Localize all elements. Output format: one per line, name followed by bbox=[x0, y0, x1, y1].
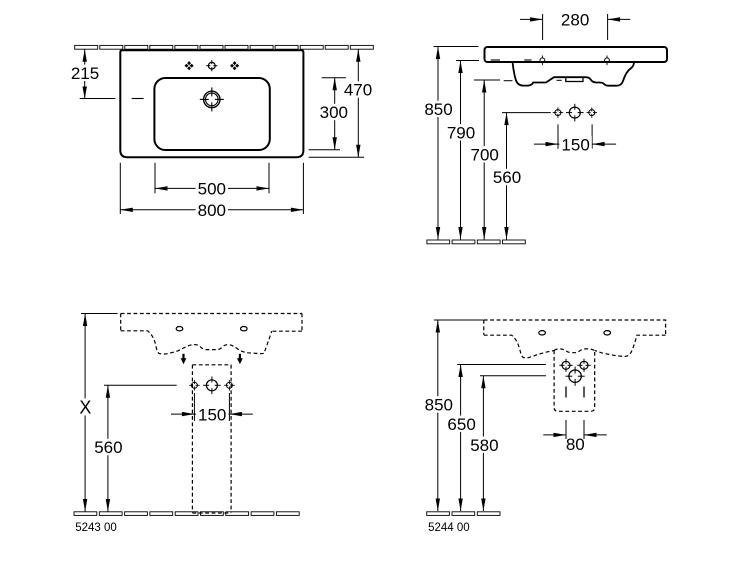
svg-text:5244 00: 5244 00 bbox=[428, 522, 470, 534]
svg-text:150: 150 bbox=[561, 135, 589, 154]
svg-text:850: 850 bbox=[424, 100, 452, 119]
svg-text:470: 470 bbox=[344, 81, 372, 100]
svg-text:850: 850 bbox=[425, 396, 453, 415]
svg-text:215: 215 bbox=[71, 64, 99, 83]
svg-text:500: 500 bbox=[198, 180, 226, 199]
svg-text:790: 790 bbox=[447, 124, 475, 143]
svg-text:150: 150 bbox=[198, 405, 226, 424]
svg-text:800: 800 bbox=[198, 201, 226, 220]
svg-text:80: 80 bbox=[566, 435, 585, 454]
svg-text:5243 00: 5243 00 bbox=[75, 522, 117, 534]
svg-text:580: 580 bbox=[470, 436, 498, 455]
svg-text:560: 560 bbox=[94, 438, 122, 457]
svg-text:300: 300 bbox=[320, 103, 348, 122]
svg-text:560: 560 bbox=[493, 168, 521, 187]
svg-text:X: X bbox=[79, 398, 91, 418]
svg-text:650: 650 bbox=[447, 415, 475, 434]
svg-text:700: 700 bbox=[471, 146, 499, 165]
svg-text:280: 280 bbox=[561, 10, 589, 29]
